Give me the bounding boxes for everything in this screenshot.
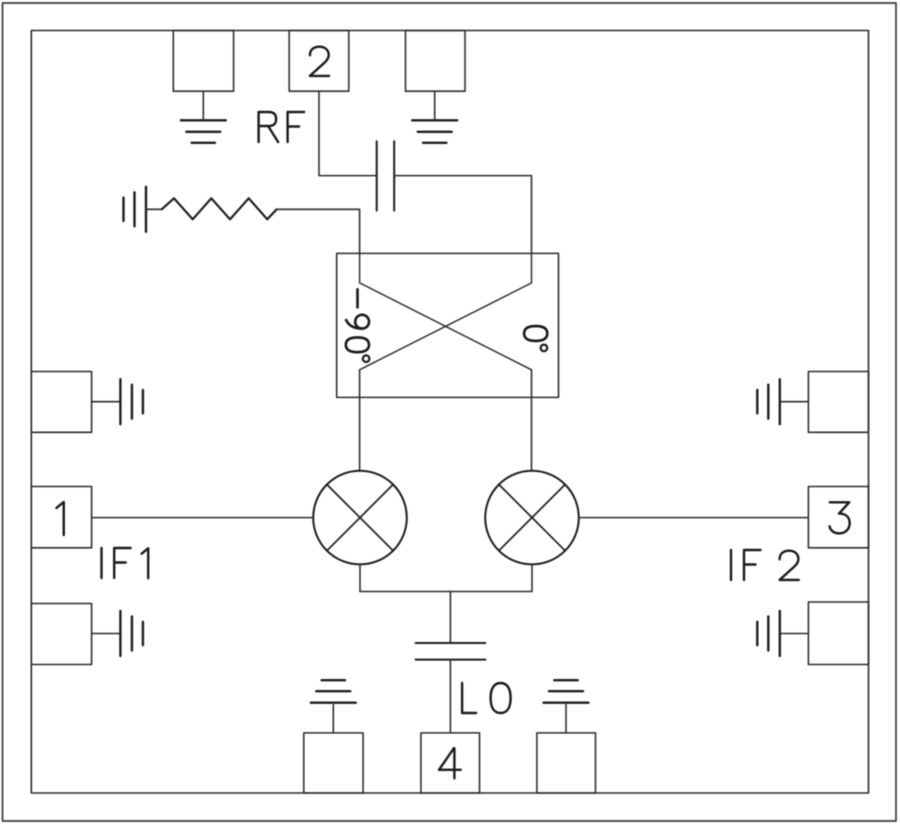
pin number 4	[439, 748, 461, 778]
top ground pad P6	[406, 31, 466, 92]
wire resistor R1 to hybrid -90deg port	[277, 209, 360, 254]
pin number 3	[830, 502, 850, 533]
wire LO junction to capacitor C2	[449, 592, 451, 644]
left ground pad P7	[31, 372, 91, 433]
label LO	[462, 683, 511, 713]
ground above pad P12	[544, 680, 589, 703]
wire pad P12 to ground	[565, 705, 567, 733]
wire ground to resistor R1	[146, 208, 162, 210]
wire pad P11 to ground	[332, 705, 334, 733]
label -90deg	[346, 289, 370, 362]
wire pad 3 to mixer M2	[579, 517, 809, 519]
wire mixer M2 to LO junction	[450, 564, 532, 591]
wire hybrid 0 port to mixer M2	[531, 370, 533, 471]
pin number 2	[310, 47, 329, 76]
right ground pad P9	[808, 372, 868, 433]
pad 3 (IF2)	[808, 487, 868, 548]
ground left of pad P9	[757, 379, 780, 424]
ground right of pad P8	[120, 611, 142, 656]
wire pad P6 to ground	[434, 91, 436, 118]
wire pad 1 to mixer M1	[92, 517, 314, 519]
label RF	[259, 112, 305, 142]
label IF2	[731, 550, 799, 580]
top ground pad P5	[173, 31, 233, 92]
bottom ground pad P12	[537, 733, 596, 793]
wire pad P5 to ground	[202, 91, 204, 118]
label 0deg	[524, 326, 547, 351]
capacitor C2 (LO coupling)	[416, 643, 486, 660]
resistor R1	[162, 198, 277, 219]
capacitor C1 (RF coupling)	[377, 141, 395, 210]
wire capacitor C2 to pad 4	[449, 660, 451, 733]
wire hybrid -90 port to mixer M1	[359, 370, 361, 471]
hybrid U1 crossover lines	[360, 253, 532, 369]
label IF1	[102, 548, 149, 578]
ground right of pad P7	[120, 379, 142, 424]
pin number 1	[57, 502, 64, 535]
quadrature hybrid U1 box	[337, 253, 559, 397]
left ground pad P8	[31, 604, 91, 665]
mixer M2	[485, 471, 579, 565]
wire pad 2 to capacitor C1	[319, 91, 377, 175]
wire pad P9 to ground	[780, 401, 809, 403]
wire pad P8 to ground	[92, 633, 121, 635]
mixer M1	[313, 471, 407, 565]
pad 2 (RF)	[289, 31, 349, 92]
ground below pad P6	[412, 120, 457, 143]
ground below pad P5	[181, 120, 226, 143]
wire mixer M1 to LO junction	[360, 564, 450, 591]
ground above pad P11	[311, 680, 356, 703]
ground at resistor R1	[124, 187, 147, 232]
wire capacitor C1 to hybrid 0deg port	[394, 176, 531, 254]
wire pad P7 to ground	[92, 401, 121, 403]
wire pad P10 to ground	[780, 633, 809, 635]
bottom ground pad P11	[304, 733, 363, 793]
pad 4 (LO)	[421, 733, 480, 793]
right ground pad P10	[808, 602, 868, 665]
pad 1 (IF1)	[31, 487, 91, 548]
ground left of pad P10	[757, 611, 780, 656]
